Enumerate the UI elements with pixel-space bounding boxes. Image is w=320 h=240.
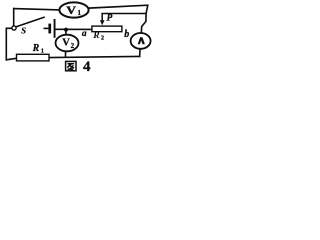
svg-text:2: 2	[71, 42, 75, 50]
svg-text:1: 1	[41, 47, 44, 54]
svg-text:P: P	[107, 12, 113, 22]
svg-text:1: 1	[77, 8, 81, 17]
svg-text:b: b	[124, 29, 129, 40]
svg-text:R: R	[92, 31, 99, 41]
svg-text:s: s	[20, 22, 26, 37]
svg-text:2: 2	[101, 36, 104, 42]
svg-text:a: a	[82, 29, 87, 39]
svg-text:R: R	[32, 43, 40, 54]
svg-text:V: V	[66, 4, 76, 17]
svg-text:V: V	[62, 38, 70, 49]
svg-text:4: 4	[83, 59, 91, 73]
